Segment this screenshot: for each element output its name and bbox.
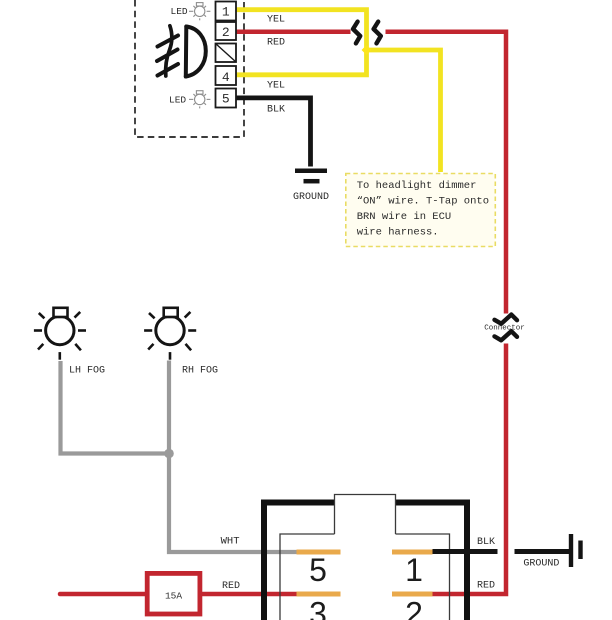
junction (gray dot) — [164, 449, 174, 459]
svg-text:YEL: YEL — [267, 15, 285, 26]
svg-text:RH FOG: RH FOG — [182, 366, 218, 377]
fog light switch symbol — [157, 26, 206, 77]
switch connector pin 1 — [216, 2, 237, 21]
fuse 15A — [147, 573, 200, 614]
svg-text:RED: RED — [222, 581, 240, 592]
ground (top) — [295, 171, 327, 181]
switch connector pin 3 (no connection) — [216, 44, 237, 63]
wire RED from pin 2 to right side and down to relay pin 2 — [236, 32, 506, 594]
svg-text:BLK: BLK — [267, 105, 285, 116]
connector break on red vertical wire — [499, 314, 513, 344]
svg-text:Connector: Connector — [484, 325, 525, 333]
svg-text:To headlight dimmer: To headlight dimmer — [357, 180, 477, 192]
svg-text:LH FOG: LH FOG — [69, 366, 105, 377]
svg-text:“ON” wire. T-Tap onto: “ON” wire. T-Tap onto — [357, 196, 489, 208]
svg-text:BLK: BLK — [477, 537, 495, 548]
svg-text:2: 2 — [222, 25, 230, 40]
wire YEL branch to headlight dimmer note — [367, 50, 441, 172]
wire BLK from relay pin 1 — [433, 549, 498, 554]
lamp RH FOG — [144, 308, 196, 360]
switch connector pin 4 — [216, 66, 237, 85]
wire WHT from RH fog lamp to relay pin 5 — [169, 361, 297, 553]
relay pin 3 terminal — [297, 592, 341, 597]
relay pin 2 terminal — [392, 592, 433, 597]
svg-text:4: 4 — [222, 70, 230, 85]
wire break gap (top red) — [351, 26, 386, 38]
svg-text:5: 5 — [309, 552, 327, 588]
switch connector pin 2 — [216, 22, 237, 40]
wire RED from battery side to fuse — [60, 592, 145, 597]
LED indicator (bottom) — [169, 91, 210, 109]
svg-text:LED: LED — [171, 6, 188, 17]
relay inner outline (thin) — [280, 534, 450, 620]
connector break marks (top) — [353, 22, 381, 44]
relay tab (thin) — [335, 495, 396, 535]
switch connector pin 5 — [216, 89, 237, 108]
svg-text:15A: 15A — [165, 591, 182, 602]
relay pin 5 terminal — [297, 550, 341, 555]
LED indicator (top) — [171, 3, 211, 21]
note box (headlight dimmer) — [346, 174, 496, 247]
wire RED from fuse to relay pin 3 — [202, 592, 297, 597]
wire YEL from pin 1 to pin 4 loop — [236, 10, 367, 75]
svg-text:WHT: WHT — [221, 536, 240, 548]
svg-text:1: 1 — [222, 5, 230, 20]
svg-text:RED: RED — [267, 38, 285, 49]
svg-text:1: 1 — [405, 552, 423, 588]
relay outline (thick) — [264, 503, 467, 620]
svg-text:3: 3 — [309, 596, 327, 620]
relay pin 1 terminal — [392, 550, 433, 555]
svg-text:5: 5 — [222, 92, 230, 107]
svg-text:wire harness.: wire harness. — [357, 227, 439, 239]
junction (yellow diamond) — [362, 45, 372, 55]
svg-text:LED: LED — [169, 95, 186, 106]
svg-text:GROUND: GROUND — [293, 192, 329, 203]
svg-text:BRN wire in ECU: BRN wire in ECU — [357, 211, 452, 223]
svg-text:RED: RED — [477, 581, 495, 592]
svg-text:2: 2 — [405, 596, 423, 620]
svg-text:YEL: YEL — [267, 81, 285, 92]
lamp LH FOG — [34, 308, 86, 360]
switch enclosure (dashed box) — [135, 0, 244, 137]
wire WHT from LH fog lamp — [61, 361, 170, 454]
svg-text:GROUND: GROUND — [523, 559, 559, 570]
ground (bottom right) — [515, 549, 570, 554]
wire BLK from pin 5 to ground — [236, 98, 311, 167]
